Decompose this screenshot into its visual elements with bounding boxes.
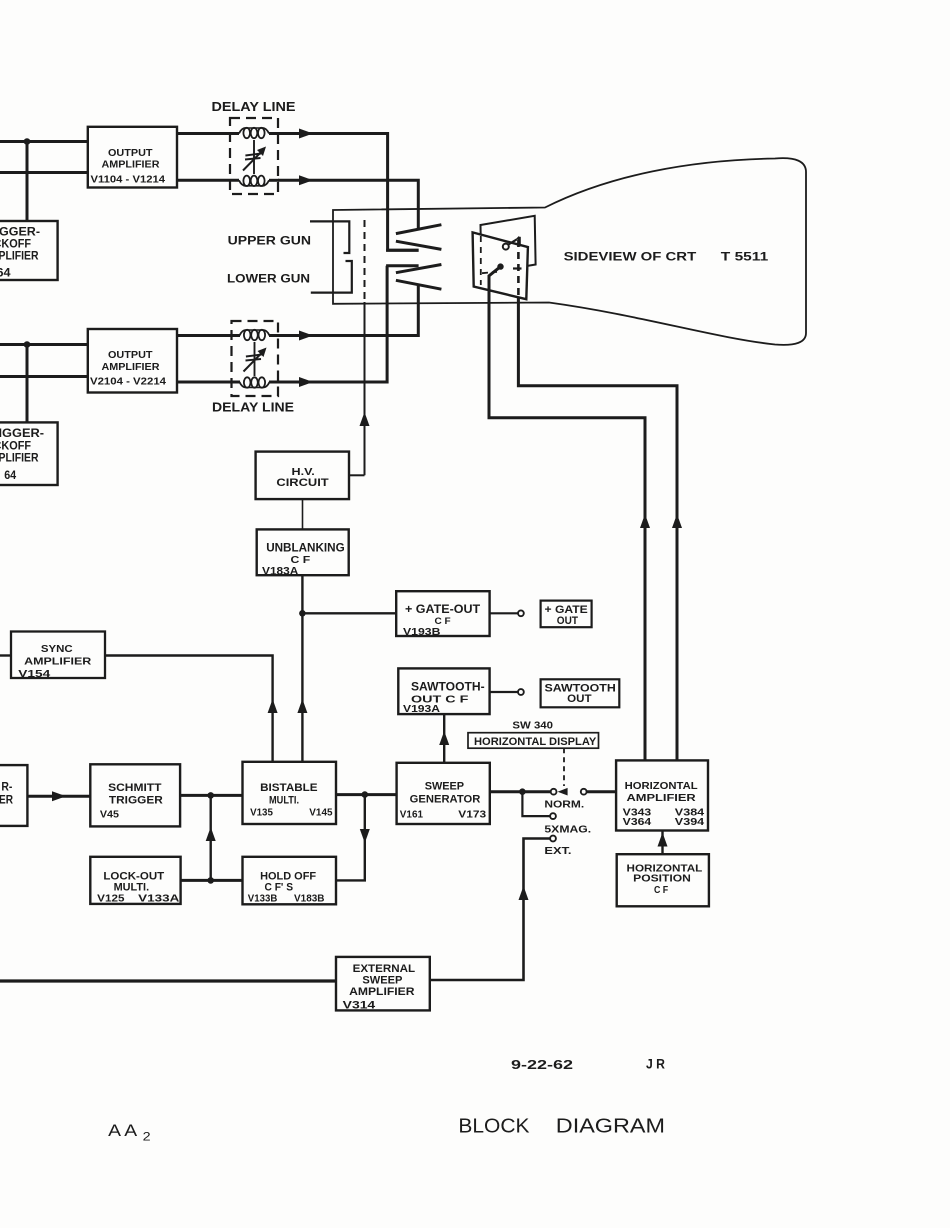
svg-text:HORIZONTAL DISPLAY: HORIZONTAL DISPLAY [474,736,597,748]
svg-text:9-22-62: 9-22-62 [511,1057,573,1072]
svg-text:TRIGGER: TRIGGER [109,795,163,807]
svg-text:LOWER GUN: LOWER GUN [227,271,310,285]
svg-text:AMPLIFIER: AMPLIFIER [349,986,415,998]
svg-text:NORM.: NORM. [544,799,584,810]
svg-text:T 5511: T 5511 [721,250,769,264]
svg-text:SYNC: SYNC [41,643,73,655]
svg-text:SWEEP: SWEEP [362,974,402,986]
svg-text:J R: J R [646,1056,665,1071]
svg-text:V133B: V133B [248,892,278,904]
svg-text:V133A: V133A [138,892,180,904]
svg-text:LOCK-OUT: LOCK-OUT [103,870,164,882]
svg-text:ER: ER [0,795,14,807]
svg-text:PLIFIER: PLIFIER [0,250,39,262]
svg-text:V173: V173 [458,809,486,821]
svg-text:V145: V145 [309,807,332,819]
svg-text:V394: V394 [675,816,705,828]
svg-text:V183A: V183A [262,566,298,578]
svg-text:C F: C F [654,884,669,896]
svg-text:GENERATOR: GENERATOR [410,794,481,806]
svg-text:V2104 - V2214: V2104 - V2214 [90,376,167,387]
svg-text:+ GATE-OUT: + GATE-OUT [405,604,480,616]
svg-text:AMPLIFIER: AMPLIFIER [102,160,161,171]
svg-text:V135: V135 [250,807,273,819]
svg-text:POSITION: POSITION [633,873,691,885]
svg-text:2: 2 [143,1131,151,1143]
svg-text:V154: V154 [18,668,50,680]
svg-text:5XMAG.: 5XMAG. [544,824,591,835]
svg-text:V161: V161 [400,809,423,821]
svg-text:SCHMITT: SCHMITT [108,782,162,794]
svg-text:DELAY LINE: DELAY LINE [212,99,296,114]
svg-text:CKOFF: CKOFF [0,239,31,251]
svg-text:PLIFIER: PLIFIER [0,453,39,465]
svg-text:UNBLANKING: UNBLANKING [266,541,345,555]
svg-text:V314: V314 [343,999,376,1011]
svg-text:HORIZONTAL: HORIZONTAL [625,780,699,792]
svg-text:OUTPUT: OUTPUT [108,148,153,159]
svg-text:CKOFF: CKOFF [0,441,31,453]
svg-text:64: 64 [0,268,11,280]
svg-text:IGGER-: IGGER- [0,428,44,440]
svg-text:V125: V125 [97,892,124,904]
svg-text:V193B: V193B [403,626,441,638]
svg-text:EXT.: EXT. [544,846,571,857]
svg-text:SIDEVIEW OF CRT: SIDEVIEW OF CRT [564,250,697,264]
svg-text:HOLD OFF: HOLD OFF [260,870,316,882]
svg-text:DIAGRAM: DIAGRAM [556,1115,665,1138]
svg-text:AMPLIFIER: AMPLIFIER [24,655,92,667]
svg-text:V364: V364 [623,816,652,828]
svg-text:AMPLIFIER: AMPLIFIER [627,792,697,804]
svg-text:BLOCK: BLOCK [458,1115,529,1138]
svg-text:SAWTOOTH-: SAWTOOTH- [411,682,485,694]
svg-text:UPPER GUN: UPPER GUN [228,234,311,248]
svg-text:OUT: OUT [557,615,578,627]
svg-text:64: 64 [4,470,17,482]
svg-text:V45: V45 [100,809,119,821]
svg-text:SWEEP: SWEEP [425,781,464,793]
svg-text:R-: R- [1,782,12,794]
svg-text:C F: C F [291,554,311,566]
svg-text:AMPLIFIER: AMPLIFIER [102,362,161,373]
svg-text:V193A: V193A [403,703,440,715]
svg-text:V1104 - V1214: V1104 - V1214 [91,175,166,186]
svg-text:MULTI.: MULTI. [269,794,299,806]
svg-text:GGER-: GGER- [0,227,40,239]
svg-text:OUT: OUT [567,693,592,705]
svg-text:CIRCUIT: CIRCUIT [276,477,328,489]
svg-text:DELAY LINE: DELAY LINE [212,400,294,415]
svg-text:A A: A A [108,1121,138,1140]
svg-text:V183B: V183B [294,892,325,904]
svg-text:SW 340: SW 340 [512,720,553,731]
svg-text:BISTABLE: BISTABLE [260,782,318,794]
svg-text:OUTPUT: OUTPUT [108,350,153,361]
